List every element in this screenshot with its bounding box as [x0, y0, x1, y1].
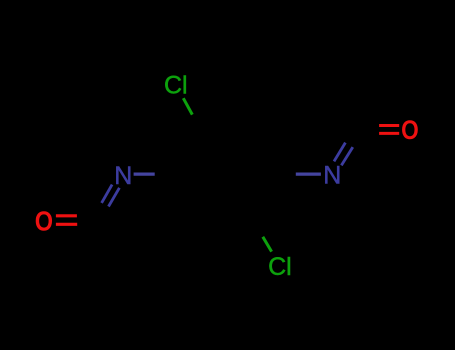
C=O double bond right, upper line (O-side red half)	[379, 124, 399, 127]
C=O double bond left, upper line (O-side red half)	[56, 214, 77, 217]
N=C double bond left, outer line (blue half)	[102, 185, 113, 203]
C–Cl bond top (Cl-side green half)	[183, 98, 192, 114]
svg-text:O: O	[35, 207, 53, 237]
svg-text:N: N	[114, 162, 132, 190]
svg-text:N: N	[323, 161, 341, 189]
N=C double bond right, outer line (blue half)	[334, 143, 345, 162]
N=C double bond left, inner line (blue half)	[109, 188, 120, 207]
N=C double bond right, inner line (blue half)	[341, 147, 352, 165]
svg-text:O: O	[401, 115, 419, 145]
svg-text:Cl: Cl	[268, 253, 292, 281]
C=O double bond left, lower line (O-side red half)	[56, 223, 77, 226]
C=O double bond right, lower line (O-side red half)	[379, 132, 399, 135]
C1–N single bond (N-side blue half)	[134, 172, 155, 175]
C–Cl bond bottom (Cl-side green half)	[263, 237, 272, 252]
svg-text:Cl: Cl	[164, 72, 188, 100]
C4–N single bond (N-side blue half)	[296, 172, 321, 175]
